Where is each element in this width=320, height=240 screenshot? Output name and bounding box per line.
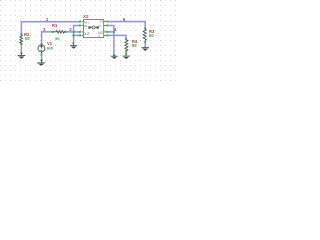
svg-text:X2: X2 <box>83 14 89 19</box>
svg-text:50: 50 <box>149 33 154 38</box>
svg-text:2: 2 <box>98 34 100 38</box>
svg-text:50: 50 <box>132 43 137 48</box>
svg-text:12: 12 <box>84 32 90 36</box>
svg-text:50: 50 <box>25 36 30 41</box>
svg-text:6: 6 <box>99 24 101 28</box>
svg-text:50: 50 <box>55 36 60 41</box>
svg-text:R1: R1 <box>52 23 58 28</box>
svg-text:sin: sin <box>47 45 54 50</box>
svg-text:IN-: IN- <box>84 24 88 28</box>
